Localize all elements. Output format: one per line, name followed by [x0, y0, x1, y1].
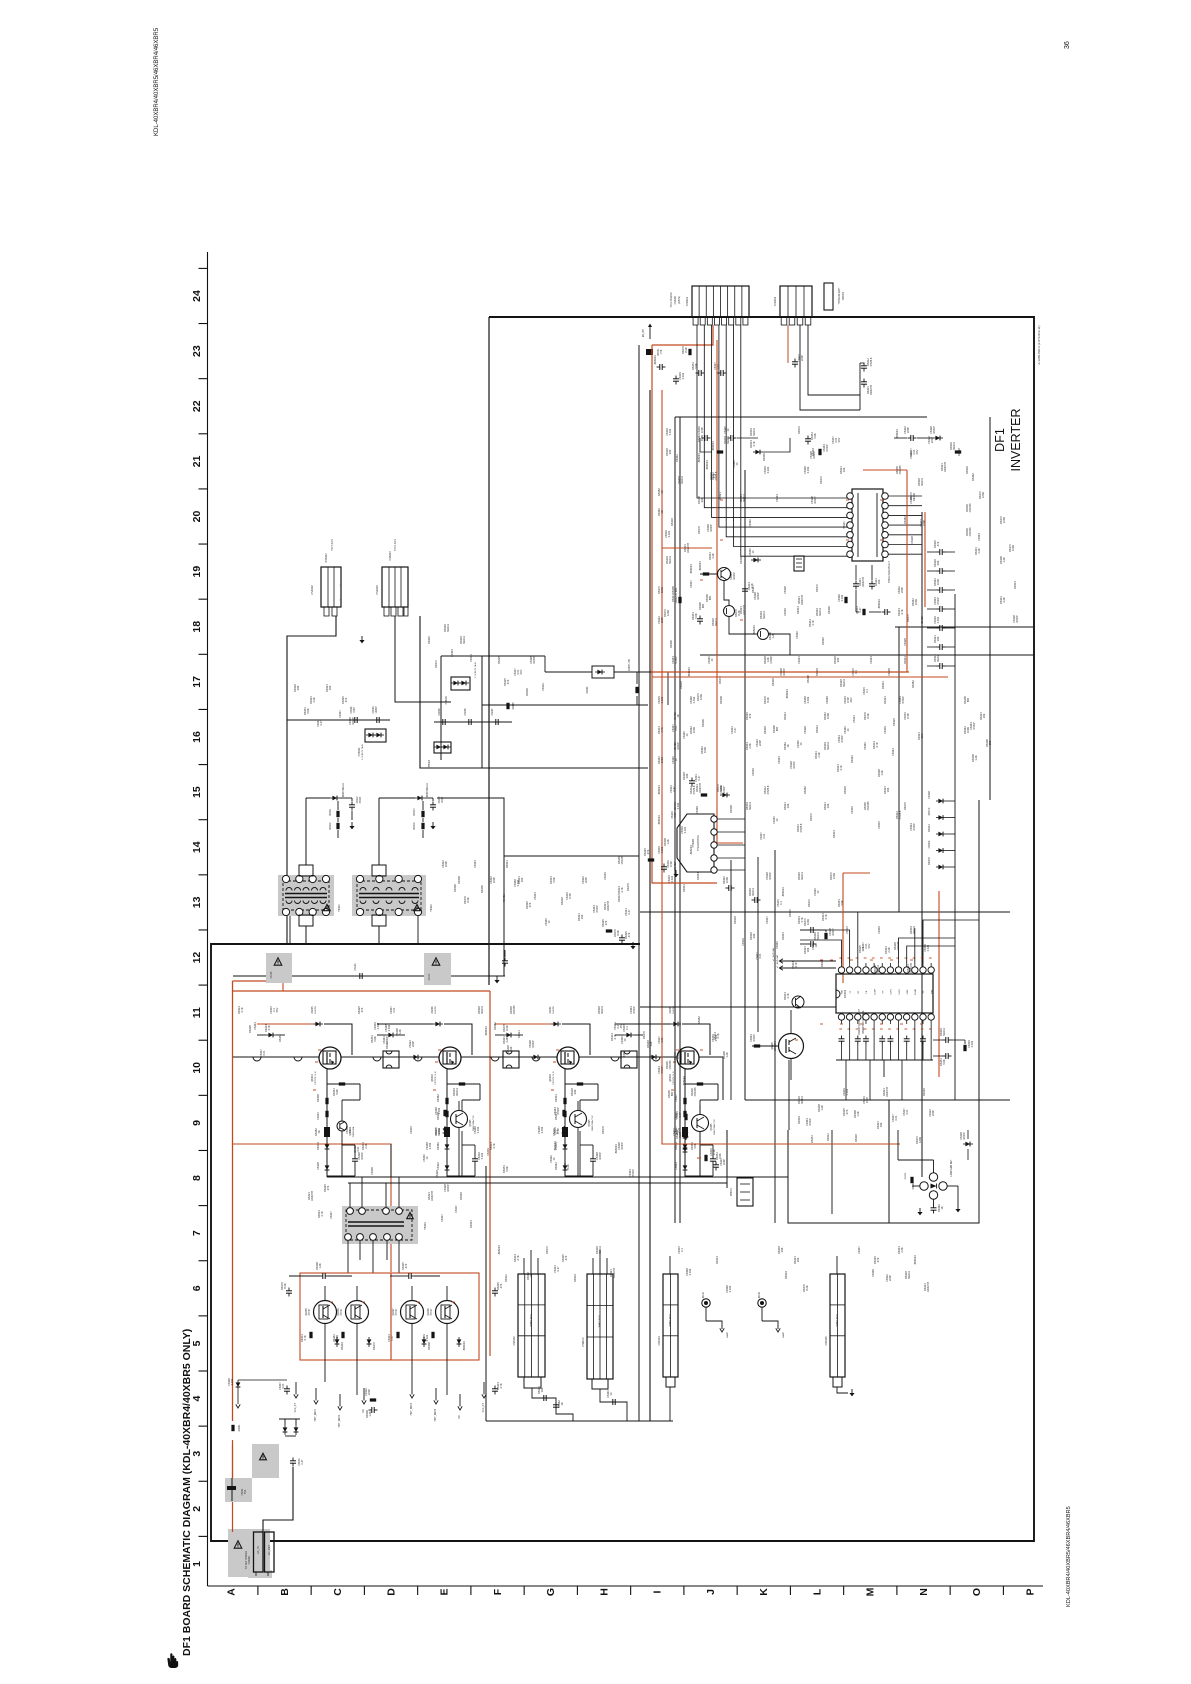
svg-text:3300P: 3300P: [360, 796, 362, 803]
svg-text:470P: 470P: [353, 707, 356, 713]
svg-text:T6403: T6403: [423, 1222, 427, 1230]
svg-text:CN6403: CN6403: [389, 551, 392, 561]
svg-text:Q6404: Q6404: [669, 1074, 672, 1082]
svg-text:4700P: 4700P: [595, 905, 599, 913]
svg-text:D6418: D6418: [670, 518, 674, 526]
svg-text:17: 17: [191, 676, 203, 688]
diode Q6407 prot: [422, 1339, 427, 1344]
svg-text:R6451: R6451: [278, 1034, 282, 1042]
diode column: [938, 815, 943, 820]
capacitor C6105: [439, 973, 441, 979]
svg-text:1SS355: 1SS355: [315, 1005, 317, 1014]
svg-text:2.2K: 2.2K: [364, 1143, 368, 1149]
svg-text:FB6301: FB6301: [731, 1187, 733, 1196]
capacitor Q6402 low: [472, 1158, 478, 1160]
wire red source tick Q6403: [553, 1061, 556, 1063]
svg-text:33K: 33K: [936, 560, 940, 565]
svg-text:1000P: 1000P: [792, 761, 796, 769]
svg-text:DTZ6.8: DTZ6.8: [766, 785, 770, 794]
svg-text:0.033: 0.033: [676, 802, 680, 809]
svg-text:R6414: R6414: [414, 822, 416, 829]
wire cn6302 drop a: [787, 325, 789, 363]
svg-text:C6707S-TL-E: C6707S-TL-E: [553, 1071, 555, 1085]
resistor R6413: [421, 811, 424, 817]
svg-text:C6428: C6428: [803, 726, 807, 734]
diode column: [938, 848, 943, 853]
svg-text:JW6044: JW6044: [689, 564, 693, 574]
svg-text:5.6K: 5.6K: [942, 1059, 946, 1065]
diode column: [938, 865, 943, 870]
capacitor C6405: [442, 719, 444, 725]
connector CN6104: [663, 1274, 678, 1377]
wire red left drop: [652, 345, 717, 883]
wire xfmr feeds: [305, 798, 307, 865]
wire rail verticals: [390, 1144, 392, 1177]
diode D6407: [553, 1022, 558, 1027]
svg-text:Q6407: Q6407: [392, 1308, 395, 1316]
capacitor C6340: [945, 1037, 947, 1043]
capacitor C6403: [376, 717, 378, 723]
svg-text:C6440: C6440: [863, 742, 867, 750]
capacitor C6303: [792, 361, 798, 363]
svg-text:8.2K: 8.2K: [566, 1164, 570, 1170]
svg-text:D: D: [385, 1588, 397, 1596]
svg-text:33K: 33K: [836, 657, 840, 662]
svg-text:UDZ27B: UDZ27B: [909, 963, 913, 973]
svg-text:0.022: 0.022: [936, 616, 940, 623]
svg-text:47K: 47K: [861, 946, 865, 951]
wire T6403 top leads: [349, 1183, 351, 1207]
svg-text:6: 6: [191, 1285, 203, 1291]
svg-text:C5707: C5707: [431, 1308, 433, 1315]
svg-text:4.7K: 4.7K: [267, 1025, 271, 1031]
diode Q6403 low b: [563, 1165, 568, 1170]
svg-text:C6403: C6403: [783, 608, 787, 616]
svg-text:AC_IN: AC_IN: [256, 1546, 260, 1554]
svg-text:MA111: MA111: [942, 1028, 946, 1036]
svg-text:T6301: T6301: [842, 521, 846, 529]
connector CN6302: [780, 286, 812, 317]
svg-text:KDL-40XBR4/40XBR5/46XBR4/46XBR: KDL-40XBR4/40XBR5/46XBR4/46XBR5: [1066, 1506, 1072, 1607]
diode D6001: [283, 1427, 288, 1432]
svg-text:R6470: R6470: [927, 807, 931, 815]
svg-text:33K: 33K: [509, 1046, 513, 1051]
svg-text:CN6301: CN6301: [685, 296, 689, 306]
wire cluster1: [306, 797, 330, 799]
svg-text:0.033: 0.033: [437, 1107, 441, 1114]
svg-text:1.5K: 1.5K: [661, 349, 663, 354]
wire CN6403 down b: [420, 616, 648, 768]
svg-text:5: 5: [191, 1340, 203, 1346]
svg-text:3: 3: [191, 1451, 203, 1457]
svg-text:R6418: R6418: [843, 786, 847, 794]
capacitor C6455: [322, 1273, 324, 1279]
svg-text:1000P: 1000P: [1015, 615, 1019, 623]
svg-text:47K: 47K: [344, 697, 348, 702]
svg-text:R6408: R6408: [729, 805, 733, 813]
svg-text:R6451: R6451: [469, 1220, 473, 1228]
capacitor C6406: [468, 719, 470, 725]
resistor R6001: [231, 1425, 234, 1431]
wire CN6105 tail: [837, 1387, 848, 1393]
wire main bus: [233, 1056, 723, 1058]
svg-text:50V: 50V: [915, 449, 919, 454]
wire cell ladder Q6401: [327, 1083, 360, 1085]
diode Q6401 low b: [325, 1165, 330, 1170]
wire red ic feed: [842, 873, 844, 983]
svg-text:R6418: R6418: [560, 897, 564, 905]
svg-text:0.022: 0.022: [683, 826, 687, 833]
svg-text:JW6044: JW6044: [657, 815, 661, 825]
svg-text:J: J: [705, 1589, 717, 1595]
svg-text:120K: 120K: [912, 493, 916, 499]
wire diode join: [279, 1418, 300, 1420]
resistor Q6407 base: [396, 1332, 399, 1338]
svg-text:JW6044: JW6044: [653, 355, 657, 365]
svg-text:CN6001: CN6001: [248, 1555, 251, 1564]
svg-text:MA111: MA111: [462, 636, 466, 644]
svg-text:T6401: T6401: [337, 904, 341, 912]
resistor R6405: [506, 703, 509, 709]
svg-text:T5A: T5A: [244, 1489, 247, 1494]
svg-text:1.2K: 1.2K: [725, 1052, 729, 1058]
wire buffer leads: [577, 1128, 579, 1178]
capacitor C6316: [697, 618, 703, 620]
resistor R6411: [336, 811, 339, 817]
svg-text:0.01: 0.01: [660, 1037, 664, 1043]
svg-text:220P: 220P: [584, 877, 588, 883]
wire buffer leads: [699, 1132, 701, 1178]
svg-text:120K: 120K: [699, 694, 703, 700]
svg-text:220P: 220P: [367, 1389, 371, 1395]
wire ic bottom bus: [836, 1059, 933, 1061]
capacitor C6302: [673, 378, 679, 380]
transformer T6403 shade: [342, 1206, 418, 1244]
capacitor C6442: [713, 1164, 719, 1166]
svg-text:R6425: R6425: [821, 637, 825, 645]
svg-text:R6442: R6442: [675, 454, 679, 462]
capacitor C6308: [704, 435, 706, 441]
svg-text:1.2K: 1.2K: [1002, 557, 1006, 563]
svg-text:MA111: MA111: [455, 1088, 459, 1096]
svg-text:C6413: C6413: [439, 796, 441, 803]
diode flyback: [626, 1033, 631, 1038]
svg-text:4700P: 4700P: [674, 656, 678, 664]
connector J6102: [758, 1299, 766, 1307]
connector CN6301: [692, 286, 749, 317]
warning label W6001: [234, 1541, 242, 1548]
capacitor C6458: [492, 1290, 498, 1292]
transformer current sense: [503, 1051, 519, 1068]
wire ctrl top net: [700, 438, 712, 452]
svg-text:UDZ27B: UDZ27B: [742, 605, 746, 615]
svg-text:TO X-SUS: TO X-SUS: [394, 539, 397, 551]
connector CN6304 thermistor: [677, 814, 714, 872]
svg-text:R6462: R6462: [911, 680, 915, 688]
svg-text:R6470: R6470: [819, 476, 823, 484]
svg-text:R6462: R6462: [436, 1094, 440, 1102]
svg-text:50V: 50V: [519, 669, 523, 674]
svg-text:0.022: 0.022: [376, 1022, 380, 1029]
svg-text:4700P: 4700P: [825, 444, 829, 452]
svg-text:MA111: MA111: [818, 608, 822, 616]
svg-text:2SB1218A-TX-F: 2SB1218A-TX-F: [591, 1114, 594, 1131]
wire red quad box A: [300, 1273, 391, 1360]
wire therm links: [734, 870, 745, 888]
svg-text:10K: 10K: [806, 947, 810, 952]
wire cn6302 drop b: [800, 325, 860, 410]
svg-text:120K: 120K: [660, 587, 664, 593]
resistor Q6402 r3: [445, 1111, 448, 1117]
wire block outer left: [638, 345, 640, 1421]
resistor buffer: [443, 1110, 446, 1116]
svg-text:UDZ27B: UDZ27B: [698, 783, 702, 793]
svg-text:R6350: R6350: [905, 1172, 907, 1179]
svg-text:C6444: C6444: [777, 756, 781, 764]
capacitor C6104: [359, 973, 361, 979]
svg-text:R6431: R6431: [502, 894, 506, 902]
svg-text:4700P: 4700P: [808, 1118, 812, 1126]
resistor Q6402 r1: [459, 1082, 465, 1085]
svg-text:8.2K: 8.2K: [805, 1285, 809, 1291]
wire pre-ic net: [800, 929, 808, 931]
svg-text:R6408: R6408: [739, 556, 743, 564]
svg-text:5.6K: 5.6K: [718, 1153, 722, 1159]
wire red right drop: [489, 991, 491, 1356]
svg-text:R6470: R6470: [809, 813, 813, 821]
svg-text:1000P: 1000P: [768, 872, 772, 880]
wire v731: [730, 860, 732, 1100]
wire caps bus: [287, 719, 390, 721]
svg-text:2.2K: 2.2K: [505, 1037, 509, 1043]
svg-text:CN6102: CN6102: [513, 1336, 516, 1346]
resistor R6302: [688, 349, 691, 355]
svg-text:0.01: 0.01: [905, 1109, 909, 1115]
svg-text:2.2K: 2.2K: [312, 697, 316, 703]
transistor Q6402: [439, 1047, 461, 1069]
svg-text:220P: 220P: [922, 520, 926, 526]
svg-text:120K: 120K: [981, 492, 985, 498]
svg-text:F: F: [492, 1588, 504, 1595]
capacitor ic bypass: [863, 1038, 869, 1040]
svg-text:1SS355: 1SS355: [968, 503, 972, 513]
svg-text:5.6K: 5.6K: [694, 363, 698, 369]
svg-text:R6406: R6406: [453, 884, 457, 892]
svg-text:C6419: C6419: [409, 1126, 413, 1134]
svg-text:C6444: C6444: [977, 533, 981, 541]
svg-text:1000P: 1000P: [598, 1152, 602, 1160]
svg-text:10K: 10K: [796, 1257, 800, 1262]
wire CN6102 stubs: [523, 1258, 525, 1274]
wire cell foot Q6402: [447, 1175, 475, 1177]
wire drain down Q6402: [446, 1069, 448, 1084]
ground G6: [675, 870, 677, 874]
svg-text:R6470: R6470: [788, 909, 792, 917]
svg-text:C6428: C6428: [887, 668, 891, 676]
svg-text:0.01: 0.01: [894, 1115, 898, 1121]
resistor R6305: [955, 450, 961, 453]
svg-text:MA111: MA111: [680, 476, 684, 484]
capacitor C6103: [279, 973, 281, 979]
svg-text:0.033: 0.033: [230, 1378, 234, 1385]
capacitor C6456: [408, 1273, 410, 1279]
wire T6403 bottom leads: [347, 1241, 349, 1273]
wire red branch: [233, 1144, 391, 1272]
svg-text:0.1: 0.1: [680, 1248, 684, 1252]
svg-text:JW6044: JW6044: [553, 1141, 557, 1151]
svg-text:JW6044: JW6044: [697, 453, 701, 463]
capacitor bypass Q6403 b: [532, 1057, 540, 1061]
svg-text:0.033: 0.033: [476, 1126, 480, 1133]
resistor Q6403 r2: [563, 1098, 566, 1104]
svg-text:AC_RET: AC_RET: [267, 1544, 271, 1555]
resistor R6350: [910, 1177, 913, 1183]
wire ic pin drop: [873, 1024, 875, 1060]
wire Q6407 leads: [411, 1324, 413, 1361]
wire output drops: [324, 1360, 326, 1382]
svg-text:120K: 120K: [806, 919, 810, 925]
svg-text:1000P: 1000P: [532, 656, 536, 664]
svg-text:DF1 BOARD SCHEMATIC DIAGRAM (K: DF1 BOARD SCHEMATIC DIAGRAM (KDL-40XBR4/…: [181, 1329, 193, 1656]
svg-text:220P: 220P: [800, 355, 804, 361]
resistor R6306: [701, 793, 707, 796]
wire v758: [757, 857, 759, 1032]
svg-text:JW6044: JW6044: [711, 441, 715, 451]
svg-text:TO Y-SUS: TO Y-SUS: [331, 539, 334, 551]
node NC: [459, 1394, 461, 1406]
diode flyback: [506, 1033, 511, 1038]
svg-text:120K: 120K: [1011, 545, 1015, 551]
svg-text:C6448: C6448: [825, 696, 829, 704]
wire ic top fan: [800, 940, 842, 963]
svg-text:R6408: R6408: [806, 675, 810, 683]
svg-text:MA111: MA111: [742, 494, 746, 502]
diode D6441: [683, 1147, 688, 1152]
capacitor stack right: [939, 644, 941, 650]
svg-text:D6405: D6405: [311, 1006, 314, 1014]
diode D6402: [597, 670, 602, 675]
capacitor C6407: [495, 719, 497, 725]
wire cluster2 right: [437, 798, 504, 976]
svg-text:0.022: 0.022: [926, 944, 930, 951]
transistor Q6301: [718, 568, 731, 581]
wire CN6402 down: [287, 616, 336, 944]
svg-text:C6707S-TL-E: C6707S-TL-E: [315, 1071, 317, 1085]
svg-text:50V: 50V: [837, 437, 841, 442]
svg-text:C6415: C6415: [316, 1112, 320, 1120]
svg-text:50V: 50V: [275, 1007, 279, 1012]
shaded area power input: [228, 1529, 270, 1577]
capacitor C6350: [931, 1207, 937, 1209]
svg-text:D6404: D6404: [340, 1342, 344, 1350]
svg-text:0.01: 0.01: [758, 953, 762, 959]
svg-text:1.2K: 1.2K: [666, 839, 670, 845]
svg-text:D6421: D6421: [505, 860, 509, 868]
svg-text:C6444: C6444: [253, 1022, 257, 1030]
svg-text:D6412: D6412: [617, 894, 621, 902]
capacitor C6413: [430, 804, 436, 806]
capacitor C6321: [619, 937, 625, 939]
svg-text:MA111: MA111: [952, 442, 956, 450]
svg-text:4.7K: 4.7K: [240, 1007, 244, 1013]
svg-text:MA111: MA111: [800, 1096, 804, 1104]
svg-text:0.022: 0.022: [970, 1040, 974, 1047]
svg-text:R6476: R6476: [903, 802, 907, 810]
svg-text:22: 22: [191, 400, 203, 412]
wire sub box top: [441, 655, 545, 657]
svg-text:R6470: R6470: [718, 676, 722, 684]
transistor Q6304: [792, 996, 804, 1008]
svg-text:R6425: R6425: [892, 718, 896, 726]
svg-text:470P: 470P: [669, 861, 673, 867]
svg-text:4.7K: 4.7K: [320, 1211, 324, 1217]
svg-text:D6412: D6412: [826, 1133, 830, 1141]
svg-text:47K: 47K: [506, 679, 510, 684]
svg-text:EN_INT: EN_INT: [643, 328, 645, 337]
svg-text:47K: 47K: [627, 932, 631, 937]
svg-text:NC: NC: [459, 1415, 461, 1419]
svg-text:50V: 50V: [867, 943, 871, 948]
svg-text:C5707: C5707: [396, 1308, 398, 1315]
svg-text:C6437: C6437: [689, 580, 693, 588]
svg-text:N: N: [918, 1588, 930, 1596]
svg-text:R6476: R6476: [601, 1126, 605, 1134]
svg-text:1K: 1K: [317, 1130, 321, 1133]
wire inner verticals: [831, 1130, 833, 1214]
capacitor ic bypass: [904, 1038, 910, 1040]
svg-text:A: A: [226, 1588, 238, 1596]
svg-text:HOT_DRV4: HOT_DRV4: [435, 1408, 437, 1421]
transistor Q6401: [319, 1047, 341, 1069]
svg-text:Q6425: Q6425: [470, 1119, 472, 1127]
wire T6301 right fan: [888, 495, 922, 497]
svg-text:C6448: C6448: [695, 806, 699, 814]
wire inner box bottom: [788, 800, 979, 1223]
svg-text:47K: 47K: [326, 1185, 330, 1190]
svg-text:P: P: [1024, 1588, 1036, 1595]
svg-text:470P: 470P: [865, 1097, 869, 1103]
svg-text:KDL-40XBR4/40XBR5/46XBR4/46XBR: KDL-40XBR4/40XBR5/46XBR4/46XBR5: [154, 27, 160, 136]
shaded warning box: [266, 953, 292, 983]
transistor Q6407: [401, 1301, 424, 1324]
transistor Q6403: [557, 1047, 579, 1069]
svg-text:C6707S-TL-E: C6707S-TL-E: [435, 1071, 437, 1085]
capacitor C6470: [543, 1395, 545, 1401]
transformer T6403: [346, 1210, 412, 1240]
svg-text:CN6301: CN6301: [674, 295, 677, 304]
svg-text:C6444: C6444: [450, 649, 454, 657]
svg-text:0.01: 0.01: [677, 1127, 681, 1133]
svg-text:Q6405: Q6405: [305, 1308, 308, 1316]
svg-text:D6409: D6409: [480, 885, 484, 893]
svg-text:10: 10: [191, 1062, 203, 1074]
IC IC6302 top pins: [838, 967, 844, 973]
svg-text:IC6302 MR4011-XXXFP: IC6302 MR4011-XXXFP: [858, 1009, 861, 1035]
wire gate drop Q6402: [444, 1024, 472, 1055]
svg-text:2SB1218A-TX-F: 2SB1218A-TX-F: [713, 1118, 716, 1135]
svg-text:RD6402: RD6402: [325, 553, 328, 563]
svg-text:VDD: VDD: [842, 989, 844, 994]
svg-text:R6425: R6425: [427, 636, 431, 644]
wire red t6301 feed: [863, 469, 907, 471]
transistor buffer: [692, 1115, 709, 1132]
svg-text:DTZ6.8: DTZ6.8: [869, 357, 873, 366]
svg-text:CN6302: CN6302: [773, 296, 777, 306]
svg-text:R6414: R6414: [832, 830, 836, 838]
capacitor C6318: [869, 583, 875, 585]
svg-text:HOT_DRV3: HOT_DRV3: [411, 1402, 413, 1415]
svg-text:47K: 47K: [604, 920, 608, 925]
